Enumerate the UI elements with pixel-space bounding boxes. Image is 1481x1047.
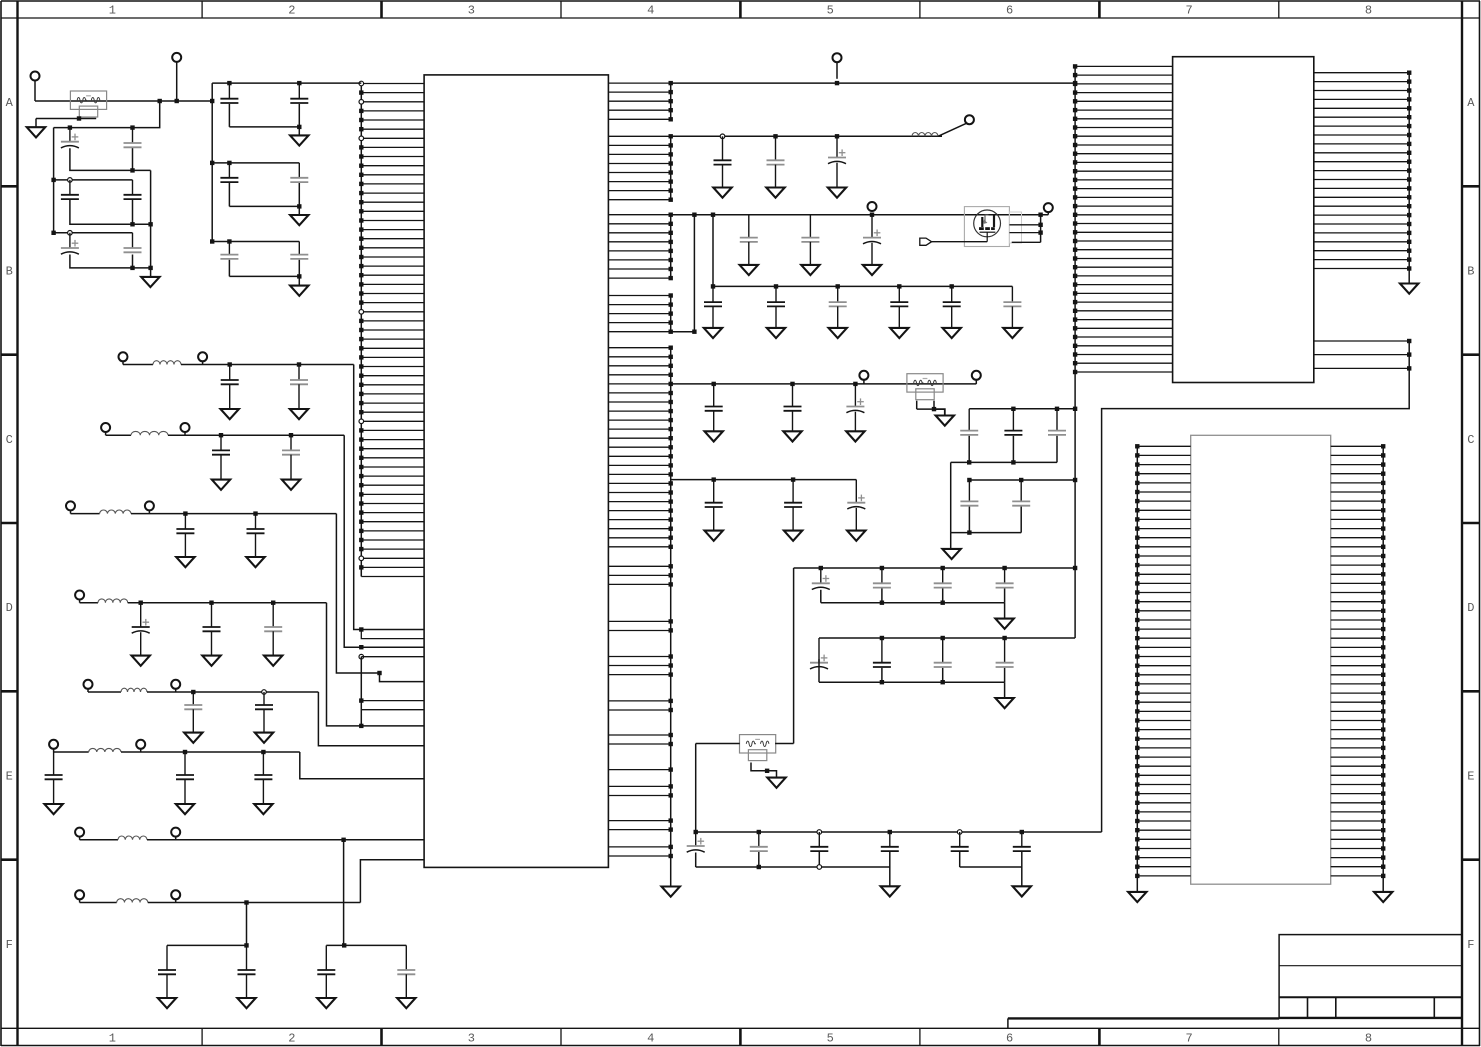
svg-text:C: C <box>1467 433 1474 447</box>
svg-text:F: F <box>1467 938 1474 952</box>
svg-text:2: 2 <box>288 4 295 18</box>
svg-text:E: E <box>1467 770 1474 784</box>
svg-text:1: 1 <box>109 1032 116 1046</box>
svg-text:D: D <box>6 601 13 615</box>
svg-text:8: 8 <box>1365 1032 1372 1046</box>
svg-text:B: B <box>1467 265 1474 279</box>
svg-text:3: 3 <box>468 1032 475 1046</box>
svg-text:6: 6 <box>1006 1032 1013 1046</box>
svg-text:A: A <box>6 96 14 110</box>
svg-text:8: 8 <box>1365 4 1372 18</box>
svg-text:7: 7 <box>1185 1032 1192 1046</box>
svg-text:5: 5 <box>827 4 834 18</box>
svg-text:7: 7 <box>1185 4 1192 18</box>
svg-text:4: 4 <box>647 4 654 18</box>
svg-text:6: 6 <box>1006 4 1013 18</box>
svg-text:E: E <box>6 770 13 784</box>
svg-text:C: C <box>6 433 13 447</box>
svg-text:5: 5 <box>827 1032 834 1046</box>
svg-text:1: 1 <box>109 4 116 18</box>
svg-text:D: D <box>1467 601 1474 615</box>
svg-text:3: 3 <box>468 4 475 18</box>
svg-text:F: F <box>6 938 13 952</box>
svg-text:2: 2 <box>288 1032 295 1046</box>
svg-text:A: A <box>1467 96 1475 110</box>
svg-text:B: B <box>6 265 13 279</box>
svg-text:4: 4 <box>647 1032 654 1046</box>
